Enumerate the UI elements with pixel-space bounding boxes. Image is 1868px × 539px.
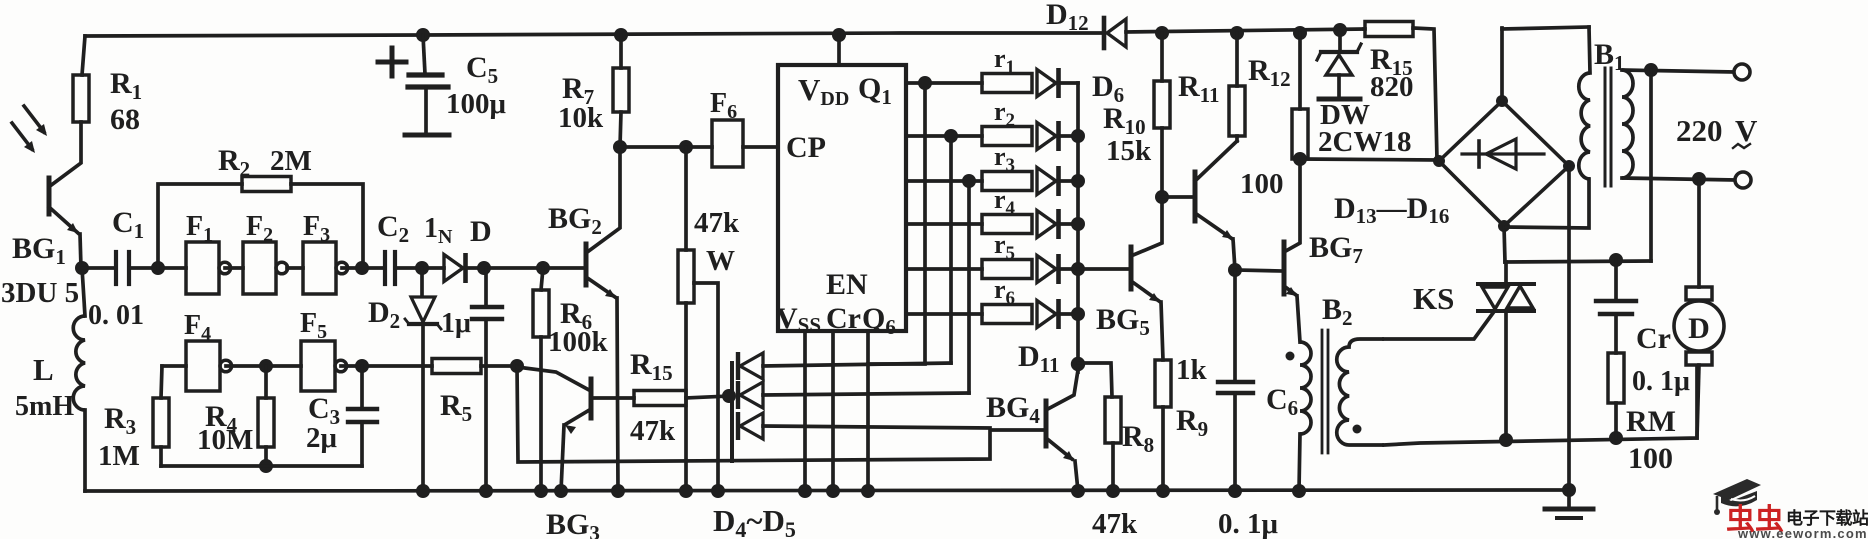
svg-text:2μ: 2μ xyxy=(306,422,338,454)
node - bottom rail junction xyxy=(1071,484,1085,498)
wire - stack row B to column of r3 node xyxy=(763,393,969,395)
stack diode 1 of D4~D5 xyxy=(736,352,740,380)
transistor BG4 xyxy=(1044,401,1049,446)
svg-text:47k: 47k xyxy=(1092,508,1138,539)
node - bottom rail junction xyxy=(534,484,548,498)
wire - column from Q1 node to EN column xyxy=(868,83,925,364)
svg-text:R3: R3 xyxy=(104,402,136,439)
node - bottom rail junction xyxy=(798,484,812,498)
svg-text:100: 100 xyxy=(1240,168,1284,200)
svg-text:47k: 47k xyxy=(630,415,676,447)
wire - node down to base row of BG4 xyxy=(517,366,1043,462)
diode D11 xyxy=(1037,301,1056,328)
capacitor C6 xyxy=(1233,270,1237,381)
resistor R6 100k xyxy=(541,268,543,290)
svg-text:R12: R12 xyxy=(1248,54,1291,91)
node - R4 top xyxy=(259,359,273,373)
plus sign of C5 xyxy=(378,60,406,65)
svg-text:EN: EN xyxy=(826,268,868,301)
resistor r2 xyxy=(982,127,1032,146)
watermark graduation cap logo xyxy=(1713,479,1761,515)
svg-text:R10: R10 xyxy=(1103,102,1146,139)
svg-text:100μ: 100μ xyxy=(446,88,507,120)
light arrow 2 into BG1 xyxy=(12,123,32,149)
svg-text:47k: 47k xyxy=(694,207,740,239)
svg-text:D12: D12 xyxy=(1046,0,1089,35)
wire - column from r2 node xyxy=(949,136,953,363)
svg-text:B2: B2 xyxy=(1322,293,1353,330)
wire - stack row C to BG4 base corner xyxy=(763,426,990,428)
node - R4 bottom xyxy=(259,459,273,473)
node - bus junction xyxy=(1071,174,1085,188)
wire - F6 row xyxy=(620,145,712,149)
IC U1 counter box xyxy=(778,65,906,331)
node - bus junction xyxy=(1071,307,1085,321)
node - bottom rail junction xyxy=(554,484,568,498)
resistor R4 10M xyxy=(264,366,268,398)
resistor r1 xyxy=(982,74,1032,93)
wire - B2 primary bottom to rail xyxy=(1299,434,1300,491)
svg-text:Q1: Q1 xyxy=(858,72,892,109)
svg-text:F1: F1 xyxy=(186,211,213,246)
svg-text:R11: R11 xyxy=(1178,70,1220,107)
node - r3 row xyxy=(962,174,976,188)
svg-text:15k: 15k xyxy=(1106,135,1152,167)
wire - IC columns to ground: Vss xyxy=(803,331,807,491)
wire - bridge bottom vertex down xyxy=(1504,226,1505,262)
svg-text:B1: B1 xyxy=(1594,38,1625,75)
svg-text:电子下载站: 电子下载站 xyxy=(1786,508,1868,528)
wire - bus node to R8 xyxy=(1078,363,1112,397)
motor D xyxy=(1697,179,1701,287)
wire - signal row BG1 to C1 xyxy=(82,266,114,270)
svg-text:D13—D16: D13—D16 xyxy=(1334,192,1449,228)
node - after diode D xyxy=(477,261,491,275)
wire - stack row A to column of r2 node xyxy=(763,363,951,366)
wire - VDD to top rail xyxy=(832,28,846,42)
capacitor C1 0.01 xyxy=(114,252,118,284)
wire - F4 to F5 xyxy=(226,364,301,368)
svg-text:W: W xyxy=(706,245,735,277)
svg-text:0. 01: 0. 01 xyxy=(88,300,144,331)
wire - left drop from rail to R1 xyxy=(82,36,85,75)
svg-text:r1: r1 xyxy=(994,44,1015,78)
svg-text:D: D xyxy=(470,215,492,248)
inductor L 5mH xyxy=(73,316,85,410)
svg-text:220: 220 xyxy=(1676,113,1723,148)
svg-text:BG2: BG2 xyxy=(548,202,602,239)
node - DW top on rail xyxy=(1333,23,1347,37)
wire - top supply rail right of D12 xyxy=(1126,29,1364,32)
wire - L to bottom rail corner xyxy=(83,410,87,491)
node - bottom rail junction xyxy=(479,484,493,498)
terminal - 220V line 2 xyxy=(1735,172,1751,188)
node - r2 row xyxy=(944,129,958,143)
stack diode 3 of D4~D5 xyxy=(736,412,740,440)
node - bottom rail junction xyxy=(416,484,430,498)
node - bridge left vertex xyxy=(1433,155,1445,167)
svg-text:2CW18: 2CW18 xyxy=(1318,126,1411,158)
svg-text:BG4: BG4 xyxy=(986,391,1040,428)
node - bus junction xyxy=(1071,217,1085,231)
ground symbol xyxy=(1567,490,1571,507)
resistor RM 100 xyxy=(1608,353,1624,403)
svg-text:C6: C6 xyxy=(1266,383,1298,420)
wire - B1 left winding bottom to bridge bottom vertex xyxy=(1506,179,1589,228)
node - R10 bottom xyxy=(1155,190,1169,204)
wire - left column to inductor L xyxy=(82,268,85,316)
resistor R12 100 xyxy=(1293,26,1307,40)
wire - C6 to bottom rail xyxy=(1233,393,1237,491)
svg-text:VSS: VSS xyxy=(776,302,821,337)
svg-text:3DU 5: 3DU 5 xyxy=(1,277,79,309)
svg-text:1N: 1N xyxy=(424,213,453,248)
wire - top supply rail left of D12 xyxy=(85,33,1102,36)
svg-text:68: 68 xyxy=(110,103,140,136)
resistor R9 1k xyxy=(1155,360,1171,407)
inverter gate F5 xyxy=(301,341,335,391)
resistor R1 xyxy=(73,75,89,122)
wire - F6 to IC CP pin xyxy=(743,145,778,149)
svg-text:10k: 10k xyxy=(558,102,604,134)
wire - R8 to bottom rail xyxy=(1111,443,1115,491)
wire - R11 to BG6 collector xyxy=(1235,136,1239,141)
svg-text:5mH: 5mH xyxy=(15,391,74,422)
inverter gate F1 xyxy=(186,242,219,294)
wire - Q output row 5 xyxy=(906,267,982,271)
node - F3 output xyxy=(355,261,369,275)
wire - diode output bus xyxy=(1076,83,1080,372)
wire - bridge top vertex to rail xyxy=(1500,28,1504,101)
wire - C1 to F1 input xyxy=(129,266,186,270)
svg-text:C2: C2 xyxy=(377,210,409,247)
wire - R7 to F6 row xyxy=(620,112,621,147)
inverter gate F2 xyxy=(243,242,276,294)
svg-text:BG1: BG1 xyxy=(12,232,66,269)
node - bottom rail junction xyxy=(861,484,875,498)
wire - R1 to BG1 collector xyxy=(50,122,81,186)
wire - Q output row 4 xyxy=(906,222,982,226)
svg-text:BG7: BG7 xyxy=(1309,231,1363,268)
node - bottom rail junction xyxy=(1292,484,1306,498)
diode D6 xyxy=(1037,70,1056,97)
wire - C2 to diode D xyxy=(395,266,444,270)
diode D8 xyxy=(1037,168,1056,195)
wire - 220V top node down to MT2 row xyxy=(1649,70,1653,261)
node - bus junction xyxy=(1071,129,1085,143)
triac KS xyxy=(1478,282,1534,286)
capacitor C3 2u xyxy=(360,366,364,408)
resistor R5 xyxy=(432,359,481,374)
svg-text:Cr: Cr xyxy=(1636,322,1671,355)
polarity dot B2 primary xyxy=(1286,352,1295,361)
wire - Q output row 6 xyxy=(906,312,982,316)
capacitor Cr 0.1u snubber xyxy=(1614,260,1618,300)
light arrow 1 into BG1 xyxy=(24,106,44,132)
transistor BG2 xyxy=(584,244,589,285)
svg-text:L: L xyxy=(33,352,54,387)
node - Cr top xyxy=(1609,253,1623,267)
resistor R3 1M xyxy=(161,366,162,398)
svg-text:0. 1μ: 0. 1μ xyxy=(1218,508,1279,539)
diode D12 in top rail xyxy=(1102,18,1107,48)
zener diode D2 xyxy=(420,268,424,296)
node - bottom rail junction xyxy=(1228,484,1242,498)
svg-text:0. 1μ: 0. 1μ xyxy=(1632,366,1690,397)
wire - B1 left winding top to rail corner xyxy=(1589,27,1590,73)
svg-text:820: 820 xyxy=(1370,71,1414,103)
wire - 1u cap to bottom rail xyxy=(484,319,488,491)
transformer B2 primary winding xyxy=(1300,342,1311,434)
svg-text:10M: 10M xyxy=(197,424,253,456)
resistor R7 10k xyxy=(614,28,628,42)
node - 220V top node xyxy=(1644,63,1658,77)
svg-text:C5: C5 xyxy=(466,51,498,88)
svg-text:C1: C1 xyxy=(112,206,144,243)
node - W top xyxy=(679,140,693,154)
svg-text:R15: R15 xyxy=(630,348,673,385)
capacitor C2 xyxy=(383,252,387,284)
wire - top rail from bridge riser to B1 xyxy=(1502,27,1589,29)
wire - RM to bottom row xyxy=(1614,403,1618,438)
node - F1 input xyxy=(151,261,165,275)
transformer B1 core xyxy=(1604,68,1607,186)
svg-text:100: 100 xyxy=(1628,442,1673,475)
svg-text:F3: F3 xyxy=(303,211,330,246)
gate row wire from R3 to F4 xyxy=(162,364,186,368)
transformer B2 core xyxy=(1321,330,1324,453)
node - R7 bottom / CP drive xyxy=(613,140,627,154)
svg-text:F2: F2 xyxy=(246,211,273,246)
node - Q1 row xyxy=(918,76,932,90)
resistor R2 2M bridging F1-F3 xyxy=(158,184,242,268)
wire - F5 output row to R5 xyxy=(341,364,432,368)
bridge rectifier D13-D16 diamond xyxy=(1439,101,1569,226)
node - bus to R8 junction xyxy=(1071,357,1085,371)
resistor R11 xyxy=(1230,26,1244,40)
capacitor 1u after diode D xyxy=(484,268,488,306)
svg-text:BG5: BG5 xyxy=(1096,303,1150,340)
transformer B2 secondary winding xyxy=(1337,339,1384,445)
wire - R10 to base node xyxy=(1160,128,1164,197)
diode D7 xyxy=(1037,123,1056,150)
diode D9 xyxy=(1037,211,1056,238)
resistor R13 820 in top rail xyxy=(1364,27,1365,31)
node - diode stack common xyxy=(722,389,736,403)
svg-text:D11: D11 xyxy=(1018,340,1060,377)
svg-text:R8: R8 xyxy=(1122,420,1154,457)
wire - Q output row 2 xyxy=(906,134,982,138)
resistor r6 xyxy=(982,305,1032,324)
node - F5 output xyxy=(355,359,369,373)
polarity dot B2 secondary xyxy=(1353,425,1362,434)
transistor BG7 xyxy=(1282,242,1287,294)
wire - B1 right bottom to 220V terminal 2 xyxy=(1622,178,1734,180)
resistor r3 xyxy=(982,172,1032,191)
wire - F1 to F2 xyxy=(225,266,243,270)
diode stack D4~D5 common bar xyxy=(730,363,734,461)
gate F6 xyxy=(712,120,743,167)
wire - zener rail row to bridge left vertex xyxy=(1300,159,1438,160)
wire - bridge right vertex to ground xyxy=(1567,166,1571,490)
transistor BG3 xyxy=(517,367,589,390)
transformer B1 left winding xyxy=(1579,73,1590,179)
svg-text:V: V xyxy=(1735,113,1758,148)
svg-text:100k: 100k xyxy=(548,326,609,358)
node - RM bottom on row xyxy=(1609,431,1623,445)
svg-text:www.eeworm.com: www.eeworm.com xyxy=(1737,526,1868,539)
inverter gate F3 xyxy=(303,242,336,294)
svg-text:R1: R1 xyxy=(110,67,142,104)
svg-text:R5: R5 xyxy=(440,389,472,426)
resistor R10 15k xyxy=(1155,26,1169,40)
svg-text:1k: 1k xyxy=(1176,354,1208,386)
svg-text:F5: F5 xyxy=(300,308,327,343)
node - R12 bottom xyxy=(1293,152,1307,166)
node - bottom rail junction xyxy=(826,484,840,498)
node - BG3 base node xyxy=(510,359,524,373)
wire - R9 to bottom rail xyxy=(1161,407,1165,491)
wire - 820 resistor down to bridge left vertex xyxy=(1413,28,1437,160)
svg-text:RM: RM xyxy=(1626,405,1676,438)
inverter gate F4 xyxy=(186,341,220,391)
node - C6 / BG7 base node xyxy=(1228,263,1242,277)
transformer B1 right winding xyxy=(1622,70,1633,178)
node - bottom rail junction xyxy=(1106,484,1120,498)
resistor R8 47k xyxy=(1105,397,1121,443)
terminal - 220V line 1 xyxy=(1734,64,1750,80)
stack diode 2 of D4~D5 xyxy=(736,381,740,409)
svg-text:BG3: BG3 xyxy=(546,508,600,539)
node - bottom rail junction xyxy=(611,484,625,498)
node - bottom rail junction xyxy=(1156,484,1170,498)
wire - IC columns to ground: Cr xyxy=(831,331,835,491)
svg-text:CP: CP xyxy=(786,131,826,164)
wire - Q output row 1 xyxy=(906,81,982,85)
node - bridge top vertex xyxy=(1496,95,1508,107)
wire - column from r3 node xyxy=(967,181,971,393)
node - bottom rail junction xyxy=(679,484,693,498)
wire - Q output row 3 xyxy=(906,179,982,183)
wire - R15 to diode stack bar xyxy=(686,396,729,398)
node - D anode xyxy=(415,261,429,275)
svg-text:D4~D5: D4~D5 xyxy=(713,503,796,539)
wire - F2 to F3 xyxy=(287,266,303,270)
wire - B1 right top to 220V terminal xyxy=(1622,70,1733,72)
resistor r4 xyxy=(982,215,1032,234)
resistor r5 xyxy=(982,260,1032,279)
svg-text:1μ: 1μ xyxy=(441,308,471,339)
node - bridge bottom vertex xyxy=(1498,220,1510,232)
svg-text:F6: F6 xyxy=(710,88,737,123)
diode D10 xyxy=(1037,256,1056,283)
wire - node to BG7 base xyxy=(1235,270,1283,271)
node - motor branch tap xyxy=(1692,172,1706,186)
bridge internal diode symbol xyxy=(1462,152,1544,155)
wire - IC columns to ground: EN xyxy=(866,331,870,491)
svg-text:1M: 1M xyxy=(98,440,140,472)
node - bridge right vertex xyxy=(1563,160,1575,172)
transistor BG6 driver xyxy=(1162,195,1194,199)
potentiometer W 47k xyxy=(684,147,688,250)
wire - D to BG2 base xyxy=(466,266,584,270)
node - R6 top xyxy=(536,261,550,275)
transistor BG5 xyxy=(1078,267,1130,271)
zener diode DW 2CW18 xyxy=(1338,30,1342,50)
node - bottom rail junction xyxy=(711,484,725,498)
svg-text:VDD: VDD xyxy=(798,72,849,110)
node - KS MT1 on row xyxy=(1499,433,1513,447)
node - ground stub xyxy=(1562,483,1576,497)
svg-text:F4: F4 xyxy=(184,310,211,345)
wire - KS MT2 row xyxy=(1505,261,1651,262)
capacitor C5 100u electrolytic xyxy=(416,28,430,42)
wire - KS gate from B2 secondary xyxy=(1384,313,1493,339)
wiper of W xyxy=(694,283,718,491)
wire - B2 secondary bottom row to motor branch xyxy=(1384,366,1697,445)
wire - bottom ground rail xyxy=(85,490,1569,491)
svg-text:D2: D2 xyxy=(368,296,400,333)
diode D xyxy=(444,255,463,282)
wire - F3 output to C2 xyxy=(342,266,385,270)
svg-text:D: D xyxy=(1688,312,1710,345)
svg-text:R9: R9 xyxy=(1176,404,1208,441)
resistor R15 47k at BG3 xyxy=(634,391,686,406)
wire - RC bottom loop row xyxy=(161,464,362,468)
wire - R6 to bottom rail xyxy=(539,337,543,491)
node - bus junction xyxy=(1071,262,1085,276)
svg-text:2M: 2M xyxy=(270,145,312,177)
wire - D2 to bottom rail xyxy=(421,327,425,491)
node - BG1 emitter on signal row xyxy=(75,261,89,275)
transistor BG1 phototransistor 3DU5 xyxy=(47,178,52,214)
svg-text:KS: KS xyxy=(1413,281,1454,316)
svg-text:r2: r2 xyxy=(994,97,1015,131)
svg-text:R2: R2 xyxy=(218,144,250,181)
